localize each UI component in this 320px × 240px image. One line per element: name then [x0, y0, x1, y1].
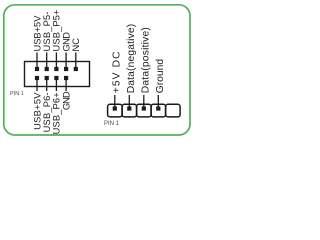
wire pin9 top (NC) — [75, 53, 77, 70]
svg-text:USB_P5-: USB_P5- — [42, 11, 52, 51]
right pin 3 square — [142, 106, 146, 110]
wire pin3 top — [46, 53, 48, 70]
right USB connector slot 5 (empty) — [166, 104, 181, 117]
svg-text:GND: GND — [61, 91, 71, 110]
wire pin2 bottom — [36, 78, 38, 91]
svg-text:GND: GND — [61, 32, 71, 52]
left USB header block outline — [25, 62, 90, 87]
right USB connector slot 3 — [137, 104, 152, 117]
wire pin8 bottom — [65, 78, 67, 91]
wire pin7 top — [65, 53, 67, 70]
right USB connector slot 4 — [151, 104, 166, 117]
right USB connector slot 2 — [122, 104, 137, 117]
wire pin4 bottom — [46, 78, 48, 91]
green rounded border frame — [4, 5, 190, 135]
svg-text:PIN 1: PIN 1 — [10, 91, 24, 97]
right pin 4 square — [156, 106, 160, 110]
svg-text:NC: NC — [71, 38, 81, 52]
right pin 2 square — [127, 106, 131, 110]
svg-text:PIN 1: PIN 1 — [104, 121, 120, 127]
wire pin1 top — [36, 53, 38, 70]
right pin 1 square — [113, 106, 117, 110]
svg-text:USB_P6+: USB_P6+ — [52, 92, 62, 134]
svg-text:USB+5V: USB+5V — [32, 15, 42, 52]
right wire 2 — [128, 95, 130, 109]
right USB connector slot 1 — [108, 104, 123, 117]
svg-text:USB_P6-: USB_P6- — [42, 92, 52, 132]
right wire 1 — [114, 95, 116, 109]
right wire 3 — [143, 95, 145, 109]
bottom row pin squares — [35, 76, 39, 80]
wire pin6 bottom — [55, 78, 57, 91]
svg-text:Ground: Ground — [155, 59, 166, 94]
top row pin squares — [35, 67, 39, 71]
right wire 4 — [157, 95, 159, 109]
svg-text:USB_P5+: USB_P5+ — [52, 9, 62, 51]
svg-text:Data(positive): Data(positive) — [141, 27, 152, 93]
wire pin5 top — [55, 53, 57, 70]
svg-text:Data(negative): Data(negative) — [126, 24, 137, 94]
svg-text:+5V DC: +5V DC — [112, 50, 123, 93]
svg-text:USB+5V: USB+5V — [32, 92, 42, 130]
